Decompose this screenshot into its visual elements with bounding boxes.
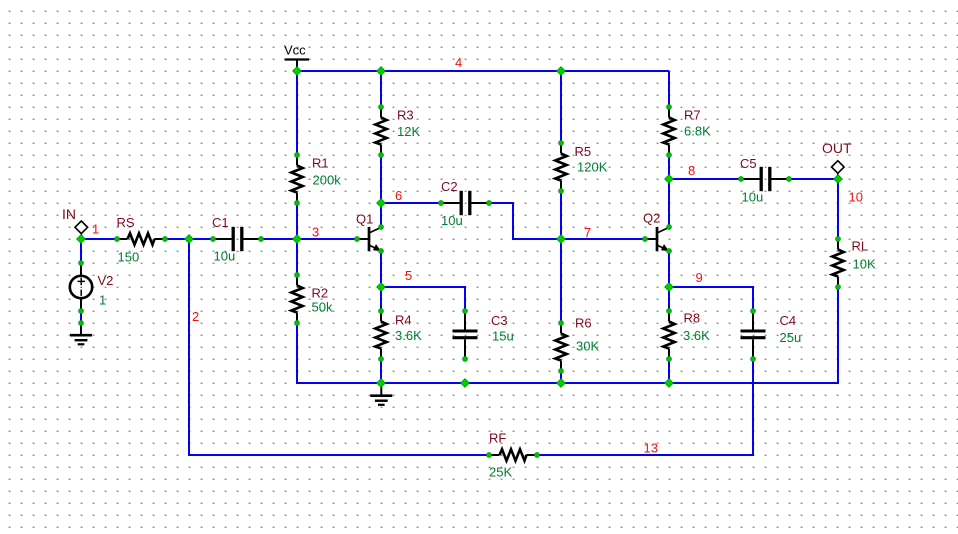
resistor R7 (663, 107, 711, 155)
terminal dots C1 (211, 237, 264, 242)
wire R3 bottom to Q1 collector through node 6 (380, 155, 382, 227)
svg-text:5: 5 (405, 268, 412, 283)
terminal dots V2 (79, 261, 84, 314)
svg-text:C3: C3 (491, 313, 508, 328)
node 5 junction (377, 283, 386, 292)
node junction Vcc (293, 67, 302, 76)
wire IN node to RS left (81, 238, 117, 240)
node 3 junction (293, 235, 302, 244)
wire C2 right to Q2 base through node 7 (489, 203, 645, 239)
terminal dots C3 (463, 309, 468, 362)
net label 13 (644, 441, 658, 456)
terminal dots R5 (559, 141, 564, 194)
svg-text:25K: 25K (489, 465, 512, 480)
net label 9 (696, 270, 703, 285)
node junction net 2 tap (185, 235, 194, 244)
node 9 junction (665, 283, 674, 292)
svg-text:8: 8 (688, 163, 695, 178)
wire C4 bottom down to feedback line (752, 359, 754, 455)
svg-text:6: 6 (395, 188, 402, 203)
terminal dots R7 (667, 105, 672, 158)
ground below V2 (70, 323, 92, 344)
node junction R6 at bus (557, 379, 566, 388)
svg-text:3: 3 (312, 225, 319, 240)
capacitor C1 (212, 215, 261, 264)
svg-text:R4: R4 (395, 313, 412, 328)
svg-text:RL: RL (852, 239, 869, 254)
capacitor C3 (453, 311, 514, 359)
svg-text:4: 4 (455, 55, 462, 70)
svg-text:12K: 12K (397, 124, 420, 139)
terminal dots R1 (295, 153, 300, 206)
node 6 junction (377, 199, 386, 208)
wire OUT node down to RL top (837, 179, 839, 239)
wire Q2 emitter to R8 top through node 9 (668, 251, 670, 311)
wire Q1 emitter to R4 top through node 5 (380, 251, 382, 311)
wire node 5 to C3 top (381, 287, 465, 311)
svg-text:2: 2 (192, 309, 199, 324)
wire net 13 RF right up to C4 bottom (537, 359, 753, 455)
capacitor C2 (441, 179, 489, 228)
resistor RS (117, 215, 166, 265)
wire net 4 corner to R7 top (668, 71, 670, 107)
svg-text:R6: R6 (575, 316, 592, 331)
svg-text:150: 150 (118, 250, 140, 265)
wire net 4 top rail (297, 70, 669, 72)
net label 8 (688, 163, 695, 178)
svg-text:25u: 25u (780, 330, 802, 345)
terminal dot ground V2 (79, 321, 84, 326)
svg-text:10: 10 (849, 190, 863, 205)
wire C1 right to Q1 base through node 3 (261, 238, 357, 240)
svg-text:10u: 10u (214, 249, 236, 264)
svg-text:120K: 120K (577, 160, 608, 175)
terminal dots Q2 (643, 225, 672, 254)
terminal dots C2 (439, 201, 492, 206)
resistor R3 (375, 107, 420, 155)
svg-text:Vcc: Vcc (284, 43, 306, 58)
terminal dots R8 (667, 309, 672, 362)
svg-text:R5: R5 (575, 144, 592, 159)
net label 10 (849, 190, 863, 205)
net label 2 (192, 309, 199, 324)
port IN (62, 206, 88, 238)
terminal dots R2 (295, 273, 300, 326)
svg-text:IN: IN (62, 206, 76, 222)
wire IN node down to V2 (80, 239, 82, 263)
terminal dots R3 (379, 105, 384, 158)
wire R1 bottom to R2 top through node 3 (296, 203, 298, 275)
wire R2 bottom to ground bus, bus to RL bottom (297, 287, 838, 383)
svg-text:50k: 50k (312, 300, 333, 315)
node junction IN/V2/RS net 1 (77, 235, 86, 244)
svg-text:C5: C5 (740, 156, 757, 171)
net label 1 (92, 222, 99, 237)
terminal dots C4 (751, 309, 756, 362)
svg-text:9: 9 (696, 270, 703, 285)
svg-text:R2: R2 (312, 286, 329, 301)
node junction C3 at bus (461, 379, 470, 388)
svg-text:R1: R1 (312, 156, 329, 171)
node junction R4/ground at bus (377, 379, 386, 388)
svg-text:R7: R7 (684, 108, 701, 123)
svg-text:C4: C4 (780, 313, 797, 328)
svg-text:Q1: Q1 (356, 212, 373, 227)
wire R6 bottom to bus (560, 371, 562, 383)
wire RS right to C1 left (165, 238, 213, 240)
resistor R2 (291, 275, 333, 323)
terminal dots RF (487, 453, 540, 458)
svg-text:10u: 10u (742, 190, 764, 205)
resistor R1 (291, 155, 341, 203)
svg-text:10K: 10K (853, 257, 876, 272)
resistor R8 (663, 311, 710, 360)
net label 7 (584, 225, 591, 240)
node junction R8 at bus (665, 379, 674, 388)
svg-text:R3: R3 (397, 108, 414, 123)
capacitor C4 (741, 311, 802, 359)
svg-text:7: 7 (584, 225, 591, 240)
wire R8 bottom to bus (668, 359, 670, 383)
svg-text:R8: R8 (684, 311, 701, 326)
voltage source V2 (70, 263, 114, 311)
svg-text:6.8K: 6.8K (684, 124, 711, 139)
resistor R4 (375, 311, 422, 359)
terminal dots R4 (379, 309, 384, 362)
svg-text:RF: RF (489, 431, 506, 446)
wire R7 bottom to Q2 collector through node 8 (668, 155, 670, 227)
svg-text:13: 13 (644, 441, 658, 456)
net label 3 (312, 225, 319, 240)
capacitor C5 (740, 156, 789, 205)
port OUT (822, 140, 852, 178)
svg-text:30K: 30K (576, 339, 599, 354)
wire V2 bottom to ground (80, 311, 82, 323)
svg-text:C1: C1 (212, 215, 229, 230)
resistor R5 (555, 143, 607, 191)
net label 6 (395, 188, 402, 203)
terminal dots RL (836, 237, 841, 290)
svg-text:3.6K: 3.6K (395, 328, 422, 343)
resistor RF (489, 431, 537, 480)
svg-text:Q2: Q2 (643, 211, 660, 226)
svg-text:200k: 200k (313, 173, 342, 188)
svg-text:OUT: OUT (822, 140, 852, 156)
wire net 2 feedback left and bottom to RF (189, 239, 489, 455)
wire node 9 to C4 top (669, 287, 753, 311)
terminal dots R6 (559, 321, 564, 374)
net label 5 (405, 268, 412, 283)
node junction R5 at net 4 (557, 67, 566, 76)
wire Vcc column to R1 top (296, 71, 298, 155)
node junction R3 at net 4 (377, 67, 386, 76)
svg-text:3.6K: 3.6K (683, 328, 710, 343)
node 8 junction (665, 175, 674, 184)
resistor R6 (555, 316, 599, 372)
svg-text:1: 1 (92, 222, 99, 237)
wire R4 bottom to bus (380, 359, 382, 383)
transistor Q2 (643, 211, 669, 252)
node 7 junction (557, 235, 566, 244)
wire R5 bottom to R6 top through node 7 (560, 191, 562, 323)
svg-text:C2: C2 (441, 179, 458, 194)
terminal dots Q1 (355, 225, 384, 254)
svg-text:V2: V2 (98, 273, 114, 288)
terminal dots C5 (739, 177, 792, 182)
net label 4 (455, 55, 462, 70)
node 10 junction at OUT (834, 175, 843, 184)
svg-text:10u: 10u (441, 213, 463, 228)
wire node 6 to C2 left (381, 202, 441, 204)
svg-text:1: 1 (99, 293, 106, 308)
wire net 4 to R5 top (560, 71, 562, 143)
resistor RL (832, 239, 876, 288)
wire net 4 to R3 top (380, 71, 382, 107)
svg-text:15u: 15u (492, 329, 514, 344)
Vcc power symbol (284, 43, 309, 72)
transistor Q1 (356, 212, 381, 252)
wire node 8 to C5 left (669, 178, 741, 180)
wire C5 right to OUT node (789, 178, 838, 180)
terminal dots RS (115, 237, 168, 242)
ground at main bus (370, 384, 392, 405)
svg-text:RS: RS (117, 215, 135, 230)
